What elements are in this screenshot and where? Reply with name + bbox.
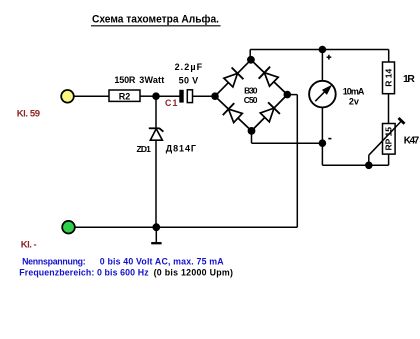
diode D4 (bridge bottom-right) xyxy=(260,102,280,122)
wire meter bottom xyxy=(321,107,323,165)
wire ZD1 to ground node xyxy=(155,140,157,227)
diode D1 (bridge top-left) xyxy=(224,68,244,88)
wire plus rail to R14 xyxy=(388,50,390,63)
wire meter top xyxy=(321,50,323,82)
capacitor C1 xyxy=(179,90,192,103)
wire plus rail xyxy=(250,49,389,51)
diode D3 (bridge bottom-left) xyxy=(223,103,243,123)
svg-text:2v: 2v xyxy=(349,97,359,107)
terminal Kl.- (green) xyxy=(62,221,75,234)
node bridge bottom vertex xyxy=(248,127,256,135)
svg-text:150R: 150R xyxy=(114,75,135,85)
wire R2 to node A xyxy=(140,95,156,97)
svg-text:K47: K47 xyxy=(404,135,420,146)
node wiper junction xyxy=(365,162,373,170)
wire bridge top to plus rail xyxy=(249,50,251,60)
svg-text:0 bis 40 Volt AC, max. 75 mA: 0 bis 40 Volt AC, max. 75 mA xyxy=(100,256,224,266)
title xyxy=(91,14,221,26)
potentiometer RP15 wiper arrow xyxy=(369,118,405,165)
svg-text:2.2µF: 2.2µF xyxy=(175,62,203,72)
node bridge top vertex xyxy=(247,56,255,64)
wire node A to ZD1 xyxy=(155,96,157,128)
ground xyxy=(151,227,161,243)
svg-text:Nennspannung:: Nennspannung: xyxy=(22,256,86,266)
svg-text:Frequenzbereich: 0 bis 600 Hz: Frequenzbereich: 0 bis 600 Hz xyxy=(19,268,149,278)
meter M1 10mA xyxy=(309,81,336,108)
bridge rectifier B30 C50 frame wires xyxy=(215,60,287,131)
wire bottom rail xyxy=(75,226,298,228)
svg-text:Схема тахометра Альфа.: Схема тахометра Альфа. xyxy=(92,14,219,26)
svg-text:Kl. 59: Kl. 59 xyxy=(17,108,40,119)
wire C1 to bridge left vertex xyxy=(193,95,216,97)
svg-text:(0 bis 12000 Upm): (0 bis 12000 Upm) xyxy=(154,268,233,278)
svg-text:50 V: 50 V xyxy=(179,75,199,85)
node plus rail / meter junction xyxy=(319,46,327,54)
svg-text:10mA: 10mA xyxy=(343,86,365,96)
resistor R14 xyxy=(383,62,395,94)
svg-text:3Watt: 3Watt xyxy=(139,75,164,85)
wire R14 to RP15 xyxy=(388,94,390,124)
potentiometer RP15 xyxy=(383,124,396,155)
wire bridge right vertex to right drop xyxy=(287,95,297,228)
svg-text:R2: R2 xyxy=(119,91,131,101)
wire node A to C1 xyxy=(156,95,180,97)
svg-text:C 1: C 1 xyxy=(165,98,177,108)
svg-text:1R: 1R xyxy=(403,73,415,85)
pin label - xyxy=(328,138,331,140)
note line 2 (Frequenzbereich) xyxy=(19,268,233,278)
pin label + xyxy=(327,55,332,60)
node ground junction xyxy=(152,223,160,231)
wire bridge bottom to minus node xyxy=(252,131,323,143)
note line 1 (Nennspannung) xyxy=(22,256,224,266)
svg-text:C50: C50 xyxy=(244,95,258,105)
svg-text:ZD1: ZD1 xyxy=(137,144,152,154)
terminal Kl.59 (yellow) xyxy=(61,90,74,103)
wire bottom right rail xyxy=(322,154,388,165)
wire terminal to R2 xyxy=(74,95,109,97)
resistor R2 xyxy=(109,90,140,101)
zener diode ZD1 xyxy=(149,128,164,140)
node bridge left vertex xyxy=(211,92,219,100)
node minus junction xyxy=(319,139,327,147)
node bridge right vertex xyxy=(284,91,292,99)
svg-text:Д814Г: Д814Г xyxy=(166,144,196,154)
svg-text:R 14: R 14 xyxy=(383,69,393,87)
node A (junction dot) xyxy=(152,92,160,100)
diode D2 (bridge top-right) xyxy=(259,67,279,87)
svg-text:Kl. -: Kl. - xyxy=(21,240,37,251)
